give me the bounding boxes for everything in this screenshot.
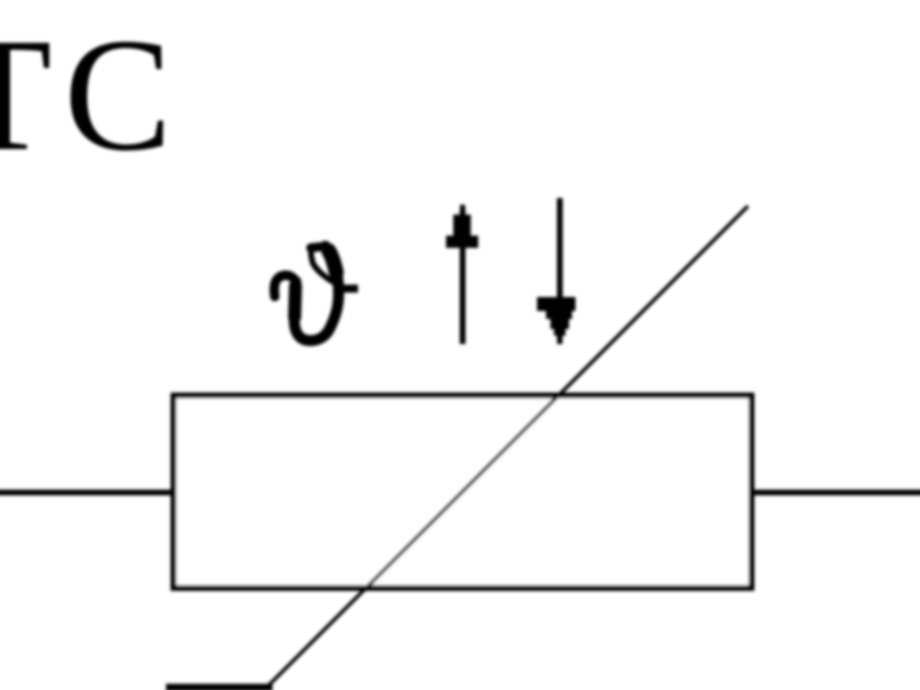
svg-text:TC: TC [0, 6, 184, 185]
up arrow head [446, 205, 478, 248]
temperature symbol ϑ (vartheta) [274, 246, 358, 340]
vartheta crossbar [336, 285, 358, 293]
down arrow head [537, 297, 576, 344]
vartheta stem, bowl and right lobe [294, 246, 338, 340]
right wire [749, 490, 920, 496]
horizontal foot of temperature-dependence stroke [166, 684, 273, 690]
vartheta leaf top bar [311, 246, 325, 248]
vartheta shoulder thickener [329, 251, 337, 273]
down arrow (resistance fall) shaft [557, 198, 563, 338]
resistor body rectangle [174, 396, 752, 589]
vartheta leaf inner stroke [311, 248, 334, 283]
vartheta stem thickener [288, 286, 302, 317]
diagonal temperature-dependence stroke [267, 206, 748, 687]
left wire [0, 490, 176, 496]
up arrow (temperature rise) shaft [460, 210, 466, 344]
vartheta hook and tail [274, 275, 296, 296]
